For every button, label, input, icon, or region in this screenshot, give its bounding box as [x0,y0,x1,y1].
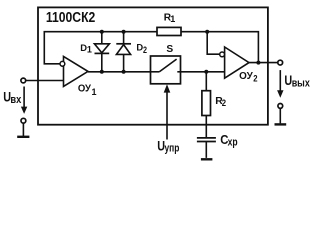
op-amp U1 inverting bubble [60,61,65,66]
wire node line U1 output to switch [88,71,151,73]
diode D2 cathode bar [116,43,131,45]
capacitor Cxp top plate [197,137,216,139]
op-amp U2 inverting bubble [220,52,225,57]
wire diode D2 bottom leg [123,54,125,71]
junction dot D1 top [100,30,104,34]
ground bar left input [17,136,29,138]
arrowhead Uvx down [21,107,27,114]
junction dot R2 tap [204,70,208,74]
switch S right contact stub [177,71,180,73]
svg-text:1: 1 [92,87,97,97]
svg-text:1100СК2: 1100СК2 [46,10,95,26]
resistor R1 body [157,27,181,35]
arrowhead Uvyx down [277,90,283,98]
wire diode D1 bottom leg [101,53,103,71]
diode D2 triangle [116,45,130,55]
capacitor Cxp bottom stub [205,142,207,158]
arrowhead control up [164,84,171,92]
wire U2 output to terminal [249,62,278,64]
op-amp U2 triangle [225,47,249,78]
junction dot D1 bottom [100,70,104,74]
svg-text:вх: вх [10,94,22,106]
wire R2 to capacitor [205,116,207,138]
junction dot U2 inverting tap [205,30,209,34]
arrow line Uvx [23,87,25,108]
wire left ground stub [22,123,24,136]
wire feedback into U1 inverting input [44,32,157,64]
wire diode D2 top leg [123,32,125,44]
wire control from Uupr to switch [166,92,168,140]
svg-text:хр: хр [228,137,238,149]
diode D1 triangle [94,44,109,53]
svg-text:1: 1 [170,14,175,24]
diode D1 cathode bar [95,52,110,54]
wire right ground stub [279,108,281,123]
wire tap to U2 inverting input [207,32,219,55]
svg-text:ОУ: ОУ [239,71,254,82]
resistor R2 body [202,91,211,116]
wire bus right of R1 down to U2 output node [181,32,258,63]
wire diode D1 top leg [101,32,103,44]
svg-text:2: 2 [143,45,147,55]
switch S blade [159,59,176,72]
input terminal Uvx top [21,78,26,83]
ground bar right output [275,123,287,125]
switch S box [151,56,181,84]
svg-text:упр: упр [165,142,180,154]
IC body box [38,7,268,124]
wire input to op-amp U1 [26,80,64,82]
svg-text:ОУ: ОУ [78,84,92,95]
junction dot D2 top [122,30,126,34]
svg-text:вых: вых [292,78,310,90]
svg-text:2: 2 [222,98,226,108]
output terminal Uvyx top [278,60,283,65]
arrow line Uvyx [279,70,281,91]
capacitor Cxp bottom plate [197,141,216,143]
ground bar under Cxp [201,158,213,160]
op-amp U1 triangle [64,56,89,86]
junction dot U2 output node [256,61,260,65]
svg-text:S: S [166,44,173,55]
output terminal Uvyx bottom [278,104,283,109]
input terminal Uvx bottom [21,118,26,123]
switch S left contact stub [151,71,160,73]
svg-text:1: 1 [87,44,92,54]
svg-text:2: 2 [253,74,257,84]
junction dot D2 bottom [122,70,126,74]
wire node to R2 [205,72,207,91]
wire switch output to U2 non-inverting input [181,71,225,73]
